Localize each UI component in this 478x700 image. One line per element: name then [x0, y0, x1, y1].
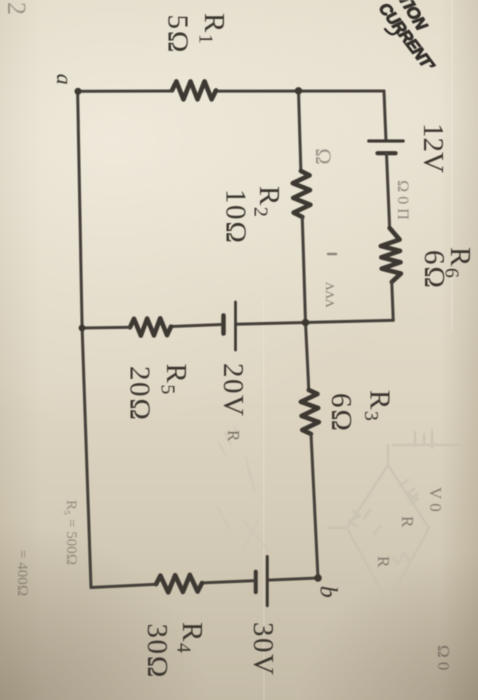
stray dash mark	[328, 253, 336, 255]
bleed-through ghost resistor and wires (mid page)	[218, 427, 268, 550]
svg-text:5Ω: 5Ω	[162, 15, 194, 55]
wire: middle rail R5 to bottom junction	[82, 326, 130, 330]
wire: top rail segment battery to R6	[387, 153, 390, 228]
wire: R2 branch to junction J	[302, 217, 305, 323]
resistor R2 (10 ohm, horizontal, middle branch)	[292, 171, 310, 217]
svg-text:R4: R4	[173, 622, 209, 654]
wire: top rail segment TL corner to 12V battery	[384, 91, 386, 141]
wire: right rail battery to R4	[202, 581, 254, 583]
resistor R5 (20 ohm, vertical, on middle rail)	[130, 318, 171, 336]
node J1 (junction dot on left rail)	[295, 87, 302, 94]
wire: middle rail battery to R5	[171, 325, 222, 327]
battery 30V: long plate	[266, 557, 269, 606]
resistor R6 (6 ohm, horizontal, on top rail)	[380, 228, 401, 283]
battery 20V: short plate	[221, 316, 226, 334]
wire: right rail node b to 30V battery	[269, 578, 318, 580]
svg-text:V 0: V 0	[426, 487, 445, 512]
bleed-through bridge circuit (show-through from reverse page)	[328, 430, 461, 603]
resistor R1 (5 ohm, vertical, on left rail)	[172, 81, 216, 99]
resistor R3 (6 ohm, horizontal, lower branch)	[300, 390, 319, 435]
svg-text:R2: R2	[250, 186, 286, 218]
svg-text:R1: R1	[195, 13, 231, 45]
svg-text:b: b	[315, 586, 341, 600]
bleed-through ghost label R4 (show-through)	[224, 430, 243, 442]
node Jb (junction dot on bottom rail)	[79, 325, 86, 332]
node J (4-way junction dot)	[302, 319, 309, 326]
svg-text:R: R	[398, 516, 417, 528]
bleed-through handwriting below circuit	[2, 2, 79, 596]
battery 20V: long plate	[234, 302, 237, 350]
svg-text:Ω 0: Ω 0	[434, 645, 453, 670]
svg-text:Ω 0 Π: Ω 0 Π	[394, 180, 411, 220]
svg-text:20Ω: 20Ω	[124, 366, 156, 422]
wire: middle rail TR corner down to junction J	[306, 320, 394, 322]
node b (junction dot)	[314, 574, 322, 582]
wire: bottom rail (node a to BR corner)	[78, 91, 91, 587]
svg-text:Ω: Ω	[311, 148, 336, 165]
battery 12V: long plate	[369, 139, 403, 142]
svg-text:30V: 30V	[247, 622, 279, 676]
svg-text:30Ω: 30Ω	[141, 624, 173, 680]
bleed-through faint letters near bridge	[311, 148, 453, 670]
svg-text:a: a	[52, 74, 77, 87]
battery 12V: short plate	[378, 151, 396, 155]
svg-text:R: R	[224, 430, 243, 442]
svg-text:R5: R5	[157, 364, 193, 396]
wire: left rail lower segment (R1 to node a)	[78, 90, 172, 93]
svg-text:R: R	[374, 556, 393, 568]
handwritten heading "TION CURRENT" (partially cut)	[375, 0, 438, 75]
svg-text:2: 2	[2, 2, 31, 15]
battery 30V: short plate	[254, 572, 258, 592]
wire: R3 branch to node b	[311, 434, 318, 578]
wire: R2 branch from left-rail junction J1	[299, 91, 301, 171]
svg-text:12V: 12V	[417, 123, 449, 173]
svg-text:20V: 20V	[217, 363, 249, 417]
wire: R3 branch from junction J	[306, 323, 309, 391]
wire: top rail segment R6 to TR corner	[392, 282, 394, 320]
wire: left rail upper segment (corner TL to R1)	[216, 90, 384, 93]
svg-text:R3: R3	[360, 390, 396, 422]
svg-text:R₅ = 500Ω: R₅ = 500Ω	[63, 500, 79, 565]
wire: right rail R4 to BR corner	[91, 584, 156, 587]
svg-text:10Ω: 10Ω	[220, 189, 252, 245]
svg-text:6Ω: 6Ω	[418, 250, 450, 290]
wire: middle rail J down to 20V battery	[237, 323, 306, 325]
resistor R4 (30 ohm, vertical, on right rail)	[156, 575, 202, 593]
svg-text:ʌʌʌ: ʌʌʌ	[322, 282, 341, 308]
svg-text:6Ω: 6Ω	[325, 393, 357, 433]
svg-text:= 400Ω: = 400Ω	[14, 550, 30, 596]
node a (junction dot)	[75, 88, 82, 95]
